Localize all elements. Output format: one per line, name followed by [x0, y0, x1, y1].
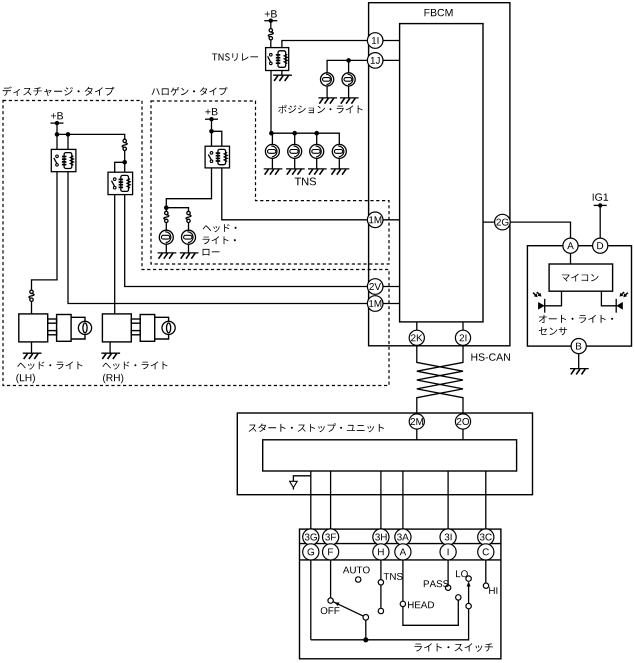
connector 2K — [409, 330, 424, 345]
connector 1J — [367, 53, 383, 69]
bulb headlight low R — [182, 230, 196, 244]
relay discharge 2 — [108, 172, 133, 194]
connector H — [373, 544, 389, 560]
headlight bulb — [78, 321, 91, 334]
connector F — [323, 544, 339, 560]
start-stop unit inner box — [263, 440, 517, 471]
junction — [314, 131, 319, 136]
fuse (TNS relay feed) — [268, 29, 273, 40]
relay halogen — [205, 146, 229, 168]
connector band lines — [300, 544, 501, 560]
ground — [158, 252, 177, 254]
label headlight LH — [17, 361, 82, 369]
ground — [264, 168, 283, 170]
start-stop unit outer box — [237, 413, 532, 495]
LO arrow wire — [468, 585, 470, 604]
ground — [308, 168, 327, 170]
wire to switch G — [310, 471, 312, 640]
wire to right photodiode — [601, 291, 616, 306]
wire to switch F — [330, 471, 332, 601]
connector 3I — [440, 529, 456, 545]
wire relay1 coil to 1M — [68, 172, 367, 304]
label PASS — [424, 580, 449, 587]
HEAD loop wire — [403, 600, 458, 625]
connector 1I — [367, 33, 383, 49]
connector 2M — [409, 414, 424, 429]
wire stub 1J — [370, 59, 400, 61]
halogen-type dashed enclosure — [151, 101, 389, 264]
signal ground arrow — [290, 481, 298, 487]
wire +B to fuse to relay — [270, 21, 272, 48]
headlight bulb — [162, 321, 175, 334]
lever pivot — [363, 615, 369, 621]
connector A — [563, 238, 578, 253]
label LO — [456, 570, 468, 577]
fuse (discharge relay 2 feed) — [122, 139, 127, 150]
label HEAD — [408, 602, 434, 609]
wire 2G to sensor A — [483, 222, 571, 238]
wire to ground — [338, 158, 340, 169]
connector 2I — [455, 330, 470, 345]
junction — [209, 129, 214, 134]
junction — [363, 637, 368, 642]
ground — [318, 97, 337, 99]
label TNS — [295, 178, 316, 186]
connector 1M (discharge) — [367, 296, 383, 312]
contact HEAD — [400, 601, 405, 606]
+B terminal (discharge) — [51, 112, 64, 125]
wire relay2 switch to RH headlight — [114, 195, 116, 314]
bulb TNS 3 — [310, 144, 324, 158]
contact HI — [483, 583, 488, 588]
junction — [269, 131, 274, 136]
bulb TNS 1 — [265, 144, 279, 158]
junction — [66, 132, 71, 137]
wire to ground — [294, 158, 296, 169]
wire IG1 to D — [599, 205, 601, 238]
TNS bus wire — [271, 133, 339, 144]
wire to switch I — [447, 471, 449, 588]
fuse (low R) — [186, 211, 191, 222]
wire to left photodiode — [545, 291, 562, 306]
label headlight low — [203, 224, 237, 232]
wire +B to relay — [212, 119, 222, 146]
connector G — [303, 544, 319, 560]
bulb position light L — [321, 73, 334, 86]
wire to switch C — [485, 471, 487, 586]
ground (TNS relay coil) — [273, 74, 292, 76]
wire to ground — [188, 244, 190, 253]
FBCM label — [425, 9, 453, 16]
relay TNS — [266, 48, 289, 71]
bulb headlight low L — [159, 230, 173, 244]
label start-stop unit — [249, 423, 384, 432]
wire to ground — [31, 342, 33, 353]
signal ground branch — [293, 476, 310, 481]
label auto light sensor — [539, 315, 613, 323]
fuse (low L) — [164, 211, 169, 222]
ground — [23, 352, 42, 354]
contact AUTO — [356, 577, 361, 582]
label TNS relay — [212, 53, 258, 61]
wire to ground — [271, 158, 273, 169]
+B terminal (halogen) — [205, 108, 218, 121]
wire relay switch to low bulbs — [166, 168, 211, 208]
connector 3H — [373, 529, 389, 545]
connector I — [440, 544, 456, 560]
junction — [346, 58, 351, 63]
discharge-type dashed enclosure — [3, 101, 389, 386]
wire relay1 switch to LH headlight — [32, 172, 58, 314]
twisted pair HS-CAN wires — [417, 346, 463, 414]
switch lever OFF arm — [333, 602, 363, 616]
wire relay2 coil to 2V — [125, 195, 368, 287]
label microcomputer — [562, 274, 599, 282]
wire A to microcomputer — [570, 253, 572, 264]
label headlight RH — [102, 361, 167, 369]
junction — [292, 131, 297, 136]
label TNS — [384, 573, 403, 580]
label AUTO — [343, 567, 370, 574]
connector 3F — [323, 529, 339, 545]
wire to ground — [165, 244, 167, 253]
ground — [286, 168, 305, 170]
ground — [570, 368, 589, 370]
headlight unit body — [102, 314, 168, 342]
connector 3A — [395, 529, 411, 545]
junction — [55, 132, 60, 137]
wire relay coil bottom to ground — [281, 71, 283, 76]
wire fuse to relay2 — [115, 150, 125, 172]
wire relay coil to 1M — [222, 168, 368, 220]
bus wire — [311, 609, 469, 640]
connector 2O — [455, 414, 470, 429]
label discharge type — [3, 87, 115, 97]
connector B — [571, 339, 586, 354]
connector 3C — [478, 529, 494, 545]
label position light — [278, 105, 362, 114]
wire stub 1M — [383, 219, 400, 221]
photodiode right — [616, 292, 628, 313]
wire to ground — [109, 342, 111, 353]
bulb TNS 4 — [332, 144, 346, 158]
bulb TNS 2 — [288, 144, 302, 158]
connector D — [593, 238, 608, 253]
FBCM inner box — [400, 24, 483, 322]
contact LO lower — [466, 603, 471, 608]
wire B to ground — [578, 354, 580, 369]
wire to ground — [316, 158, 318, 169]
connector A — [395, 544, 411, 560]
ground — [331, 168, 350, 170]
connector 3G — [303, 529, 319, 545]
module FBCM outer box — [369, 3, 510, 346]
+B terminal (TNS relay) — [264, 10, 277, 23]
ground — [180, 252, 199, 254]
label halogen type — [152, 87, 228, 96]
label HI — [489, 587, 497, 594]
microcomputer box — [549, 264, 613, 291]
wire stub 2V — [383, 286, 400, 288]
contact HEAD loop — [456, 595, 461, 600]
bulb position light R — [342, 73, 355, 86]
wire stub 1M lower — [383, 303, 400, 305]
wire +B bus — [57, 123, 125, 149]
contact TNS lower — [378, 608, 383, 613]
connector 2V — [367, 279, 383, 295]
label OFF — [321, 607, 340, 614]
wire 1J to position lights — [327, 60, 367, 72]
contact LO — [466, 576, 471, 581]
headlight unit body — [19, 314, 85, 342]
wire to switch A — [402, 471, 404, 604]
wire 2M to inner — [416, 429, 418, 440]
wire bulb L to ground — [326, 86, 328, 98]
photodiode left — [533, 292, 545, 313]
wire bulb R to ground — [348, 86, 350, 98]
ground — [101, 352, 120, 354]
wire 2O to inner — [462, 429, 464, 440]
wire to switch H — [380, 471, 382, 611]
contact PASS — [445, 585, 450, 590]
wire relay switch to TNS bus — [270, 71, 272, 134]
wire relay coil to 1I — [282, 41, 368, 48]
wire 2I stub — [462, 322, 464, 346]
wire low bulb branches — [166, 208, 188, 231]
wire stub 1I — [370, 40, 400, 42]
connector C — [478, 544, 494, 560]
label light switch — [415, 643, 494, 652]
lever pivot to bus — [365, 620, 367, 640]
fuse (LH headlight) — [29, 290, 34, 301]
ground — [340, 97, 359, 99]
wire 2K stub — [416, 322, 418, 346]
relay discharge 1 — [51, 149, 76, 171]
contact TNS — [378, 580, 383, 585]
auto light sensor box — [527, 246, 631, 346]
label HS-CAN — [471, 353, 510, 360]
contact OFF — [328, 598, 333, 603]
junction — [164, 205, 169, 210]
junction — [122, 160, 127, 165]
connector 1M (halogen) — [367, 212, 383, 228]
connector 2G — [495, 214, 511, 230]
light switch box — [300, 529, 501, 659]
IG1 terminal — [593, 193, 608, 207]
